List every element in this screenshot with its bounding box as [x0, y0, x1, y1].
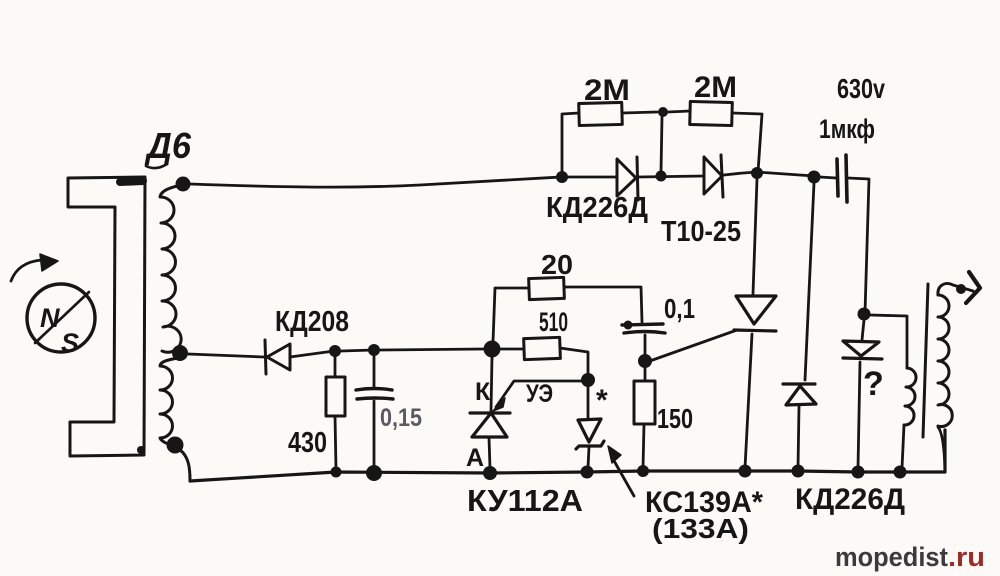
svg-text:0,1: 0,1	[664, 293, 695, 324]
svg-text:510: 510	[539, 307, 568, 337]
node top tap Д6	[176, 177, 191, 192]
stator core bracket corner blob	[137, 446, 145, 454]
wire zener to bottom rail	[588, 447, 589, 468]
svg-text:?: ?	[863, 365, 884, 403]
diode КД226Д top (on rail)	[617, 157, 638, 200]
wire УЭ node down to zener	[587, 387, 590, 419]
node diode bottom	[792, 465, 805, 478]
wire 430 to bottom rail	[335, 416, 336, 469]
node between 2М resistors	[658, 107, 668, 117]
svg-text:20: 20	[541, 249, 573, 280]
svg-text:2М: 2М	[694, 71, 737, 104]
wire 150 to bottom rail	[643, 424, 644, 468]
wire R1 to mid node	[622, 112, 657, 113]
wire primary to bottom rail	[902, 425, 904, 468]
wire КУ112А anode to bottom rail	[489, 438, 490, 468]
svg-text:150: 150	[657, 403, 693, 434]
wire bottom tap to bottom rail	[180, 450, 190, 480]
rotation arrow	[11, 254, 58, 281]
svg-text:Д6: Д6	[144, 125, 192, 166]
svg-text:*: *	[596, 384, 608, 417]
generator coil lower section	[160, 358, 178, 444]
resistor 150	[634, 381, 655, 424]
wire SCR gate	[647, 330, 737, 362]
wire K node down to thyristor КУ112А	[491, 357, 492, 411]
wire C1 right then down	[848, 178, 869, 313]
svg-text:mopedist: mopedist	[835, 542, 948, 572]
wire SCR cathode to bottom rail	[745, 334, 752, 468]
svg-text:2М: 2М	[584, 74, 630, 107]
ignition coil secondary	[938, 295, 952, 427]
svg-text:КУ112А: КУ112А	[467, 483, 583, 518]
wire secondary to rail end	[938, 427, 945, 470]
node flourish	[956, 284, 966, 294]
output arrowhead	[966, 272, 980, 303]
resistor R2 2М	[690, 101, 733, 125]
thyristor КУ112А	[470, 413, 510, 437]
svg-text:КД208: КД208	[275, 306, 349, 338]
wire 2М node down to SCR Т10-25	[753, 179, 757, 294]
capacitor 0,1	[622, 324, 665, 333]
wire top rail right	[724, 172, 814, 176]
magnet rotor N/S circle	[27, 284, 95, 358]
diode КД226Д bottom middle	[783, 384, 816, 405]
node УЭ	[581, 373, 595, 387]
diode КД208	[265, 340, 290, 374]
node SCR bottom	[739, 465, 752, 478]
resistor R1 2М left wire	[562, 113, 579, 176]
wire bottom rail	[190, 430, 945, 481]
node rail mid 2М	[656, 171, 667, 182]
svg-text:630v: 630v	[837, 73, 885, 104]
node 430 bottom	[331, 467, 342, 478]
wire top rail	[190, 177, 617, 187]
wire middle tap to diode КД208	[188, 354, 264, 357]
resistor 430	[326, 377, 345, 416]
node top of 0,15	[368, 344, 380, 356]
node КУ112А bottom	[483, 466, 497, 480]
node cap branch right	[858, 308, 871, 321]
svg-text:430: 430	[288, 427, 327, 459]
ignition coil primary	[904, 368, 916, 425]
node zener bottom	[581, 466, 594, 479]
svg-text:К: К	[475, 378, 491, 406]
node rail left 2М	[556, 171, 568, 183]
wire diode to bottom rail	[798, 406, 799, 468]
wire top rail middle	[638, 176, 704, 177]
node K	[484, 341, 501, 358]
wire node to capacitor 0,15	[373, 356, 376, 388]
node cap 0,1 top left blob	[624, 321, 633, 330]
svg-text:А: А	[466, 444, 484, 472]
node 0,15 bottom	[366, 465, 382, 481]
generator coil upper section	[160, 185, 182, 352]
node middle tap	[172, 345, 188, 361]
wire КД208 to 430 node	[290, 351, 334, 357]
node 150 bottom	[637, 465, 649, 477]
wire ? diode to bottom rail	[858, 362, 860, 468]
wire gate УЭ to КУ112А	[496, 381, 582, 407]
resistor 510	[524, 337, 561, 359]
svg-text:N: N	[40, 303, 60, 333]
capacitor C1 630v 1мкф	[837, 155, 847, 202]
svg-text:1мкф: 1мкф	[819, 114, 875, 144]
node top of 430	[329, 345, 341, 357]
resistor R1 2М	[579, 102, 623, 125]
stator core bracket	[68, 177, 145, 456]
svg-text:0,15: 0,15	[380, 404, 422, 432]
ignition coil core	[923, 284, 928, 437]
svg-text:УЭ: УЭ	[526, 380, 553, 408]
svg-text:КД226Д: КД226Д	[795, 483, 905, 516]
svg-text:(133А): (133А)	[652, 513, 749, 544]
wire cap rail node down to diode КД226Д bottom	[805, 183, 814, 380]
node gate/150	[638, 354, 652, 368]
wire 20 to cap 0,1	[564, 287, 642, 322]
thyristor Т10-25	[734, 296, 776, 331]
wire mid node to R2	[668, 111, 690, 112]
wire cap node to K node	[380, 349, 484, 350]
node ? diode bottom	[852, 466, 865, 479]
node rail at capacitor	[808, 171, 821, 184]
wire K node up to resistor 20	[493, 288, 529, 342]
wire 430 node to cap node	[341, 350, 374, 351]
capacitor 0,15	[356, 389, 393, 400]
wire R2 right down to rail	[732, 113, 762, 172]
wire mid node down to rail	[661, 117, 662, 172]
wire K node to resistor 510	[500, 348, 524, 351]
node bottom tap	[167, 437, 184, 454]
wire 510 to УЭ node	[560, 348, 588, 374]
svg-text:S: S	[61, 328, 79, 358]
wire gate node down to 150	[644, 368, 647, 381]
stator core bracket thick arm segment	[120, 181, 143, 182]
wire node to resistor 430	[334, 357, 337, 377]
wire 0,1 to gate node	[644, 335, 647, 356]
svg-text:КД226Д: КД226Д	[546, 192, 648, 224]
wire secondary top flourish	[938, 283, 973, 295]
diode Т10-25 companion (on rail)	[704, 155, 723, 197]
gate arrowhead	[493, 398, 505, 411]
wire node down to ? diode	[862, 320, 864, 340]
node rail right 2М	[751, 167, 763, 179]
resistor 20	[529, 277, 565, 299]
wire rail to capacitor C1	[820, 177, 836, 178]
svg-text:.ru: .ru	[948, 542, 985, 572]
wire node to ignition coil primary	[870, 315, 907, 368]
zener КС139А	[576, 419, 604, 449]
diode КД226Д with ?	[843, 341, 882, 359]
node primary bottom	[894, 466, 907, 479]
wire 0,15 to bottom rail	[373, 401, 376, 470]
arrow from label to zener	[613, 459, 634, 496]
svg-text:Т10-25: Т10-25	[661, 216, 741, 248]
